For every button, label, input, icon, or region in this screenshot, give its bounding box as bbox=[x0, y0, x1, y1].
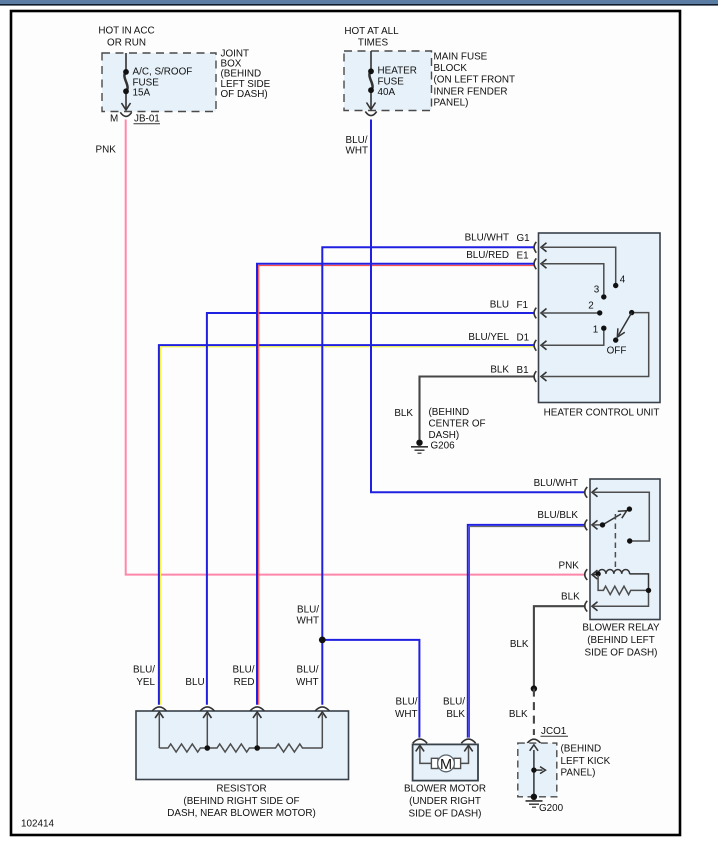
svg-text:BLU/: BLU/ bbox=[297, 665, 319, 676]
label BLOWER RELAY (BEHIND LEFT SIDE OF DASH) bbox=[582, 623, 660, 659]
relay armature pivot contact bbox=[600, 522, 605, 527]
svg-text:TIMES: TIMES bbox=[358, 37, 389, 48]
heater control unit box bbox=[539, 233, 661, 403]
svg-text:BLK: BLK bbox=[490, 364, 509, 375]
svg-text:BLOCK: BLOCK bbox=[434, 63, 468, 74]
blower relay box bbox=[590, 479, 660, 620]
svg-text:OFF: OFF bbox=[607, 346, 627, 357]
svg-text:102414: 102414 bbox=[21, 819, 54, 830]
svg-text:BLU/WHT: BLU/WHT bbox=[465, 233, 509, 244]
svg-text:PNK: PNK bbox=[558, 561, 579, 572]
svg-text:BLK: BLK bbox=[510, 639, 529, 650]
svg-text:PANEL): PANEL) bbox=[434, 98, 469, 109]
svg-text:YEL: YEL bbox=[136, 677, 155, 688]
svg-text:(BEHIND LEFT: (BEHIND LEFT bbox=[587, 635, 655, 646]
svg-text:(UNDER RIGHT: (UNDER RIGHT bbox=[409, 796, 481, 807]
label MAIN FUSE BLOCK (ON LEFT FRONT INNER FENDER PANEL) bbox=[434, 52, 516, 109]
svg-text:B1: B1 bbox=[517, 365, 530, 376]
svg-text:G1: G1 bbox=[517, 233, 531, 244]
svg-text:BLU/: BLU/ bbox=[133, 665, 155, 676]
blower switch arm with arrow bbox=[617, 313, 631, 338]
relay switch arm bbox=[603, 511, 627, 525]
svg-text:WHT: WHT bbox=[297, 616, 319, 627]
svg-text:BLU/WHT: BLU/WHT bbox=[534, 478, 578, 489]
svg-text:RED: RED bbox=[234, 677, 255, 688]
pin D1 connector bbox=[468, 332, 546, 351]
pin E1 connector bbox=[466, 250, 546, 269]
label A/C, S/ROOF FUSE 15A bbox=[133, 67, 193, 99]
svg-text:SIDE OF DASH): SIDE OF DASH) bbox=[409, 808, 482, 819]
wire PNK from JB-01 to blower relay bbox=[126, 120, 585, 575]
label (BEHIND CENTER OF DASH) bbox=[429, 407, 486, 441]
node JCO1 junction bbox=[531, 767, 536, 772]
wire BLU/WHT branch from junction to blower motor bbox=[322, 640, 419, 738]
motor internal wiring bbox=[420, 747, 469, 763]
svg-text:D1: D1 bbox=[517, 333, 530, 344]
wire BLU/BLK from blower relay to blower motor bbox=[468, 525, 585, 738]
svg-text:BLK: BLK bbox=[394, 408, 413, 419]
svg-text:HOT AT ALL: HOT AT ALL bbox=[344, 26, 399, 37]
svg-text:1: 1 bbox=[593, 325, 599, 336]
relay fixed contact upper bbox=[627, 506, 632, 511]
label RESISTOR (BEHIND RIGHT SIDE OF DASH, NEAR BLOWER MOTOR) bbox=[167, 784, 316, 820]
JCO1 box bbox=[518, 743, 557, 797]
wire labels above resistor bbox=[133, 665, 319, 689]
motor M1 symbol bbox=[431, 755, 460, 773]
wire BLU/WHT from heater fuse to blower relay bbox=[371, 120, 585, 493]
svg-text:15A: 15A bbox=[133, 88, 151, 99]
svg-text:(BEHIND: (BEHIND bbox=[429, 407, 470, 418]
switch contact OFF bbox=[613, 337, 618, 342]
svg-text:(BEHIND RIGHT SIDE OF: (BEHIND RIGHT SIDE OF bbox=[183, 796, 299, 807]
svg-text:HOT IN ACC: HOT IN ACC bbox=[98, 26, 154, 37]
svg-text:BLU/: BLU/ bbox=[396, 697, 418, 708]
svg-text:G206: G206 bbox=[431, 441, 456, 452]
svg-text:G200: G200 bbox=[539, 803, 564, 814]
svg-text:3: 3 bbox=[594, 285, 600, 296]
node resistor tap BLU/RED bbox=[254, 745, 260, 751]
svg-text:INNER FENDER: INNER FENDER bbox=[434, 86, 508, 97]
node relay coil left bbox=[595, 571, 600, 576]
fuse HEATER FUSE 40A symbol bbox=[367, 51, 376, 110]
svg-text:WHT: WHT bbox=[395, 709, 417, 720]
svg-text:A/C, S/ROOF: A/C, S/ROOF bbox=[133, 67, 193, 78]
ground G200 bbox=[526, 794, 564, 815]
svg-text:BLU: BLU bbox=[185, 677, 204, 688]
node BLK splice bbox=[531, 685, 537, 691]
fuse terminal bottom bbox=[123, 88, 129, 94]
wire BLK from blower relay to JCO1 bbox=[534, 606, 585, 688]
svg-text:BLU: BLU bbox=[490, 300, 509, 311]
connector below heater fuse bbox=[365, 112, 376, 116]
svg-text:BLU/: BLU/ bbox=[346, 135, 368, 146]
relay pin 2 connector BLU/BLK bbox=[537, 510, 597, 530]
svg-text:CENTER OF: CENTER OF bbox=[429, 418, 486, 429]
svg-text:(BEHIND: (BEHIND bbox=[561, 744, 602, 755]
node relay resistor right bbox=[646, 588, 651, 593]
label HOT IN ACC OR RUN bbox=[98, 26, 154, 49]
svg-text:BLU/RED: BLU/RED bbox=[466, 250, 509, 261]
svg-text:RESISTOR: RESISTOR bbox=[216, 784, 266, 795]
resistor pin connectors and arrows bbox=[152, 707, 329, 718]
heater fuse terminal top bbox=[368, 68, 374, 74]
svg-text:FUSE: FUSE bbox=[378, 77, 405, 88]
label (BEHIND LEFT KICK PANEL) bbox=[561, 744, 611, 779]
window top bar bbox=[0, 0, 718, 4]
relay fixed contact lower bbox=[627, 538, 632, 543]
relay pin 1 connector BLU/WHT bbox=[534, 478, 598, 498]
switch contact 2 bbox=[597, 310, 602, 315]
switch contact 4 bbox=[613, 283, 618, 288]
svg-text:WHT: WHT bbox=[346, 146, 368, 157]
wire BLU/YEL from HCU pin D1 to resistor bbox=[159, 345, 535, 705]
svg-text:BLU/: BLU/ bbox=[297, 605, 319, 616]
wire BLK dashed to JCO1 connector bbox=[533, 689, 535, 735]
switch contact 3 bbox=[601, 294, 606, 299]
svg-text:F1: F1 bbox=[517, 300, 529, 311]
relay coil bbox=[593, 570, 649, 589]
label BLOWER MOTOR (UNDER RIGHT SIDE OF DASH) bbox=[404, 784, 486, 820]
svg-text:JCO1: JCO1 bbox=[541, 726, 567, 737]
svg-text:HEATER: HEATER bbox=[378, 66, 417, 77]
svg-text:OR RUN: OR RUN bbox=[107, 38, 146, 49]
label HEATER FUSE 40A bbox=[378, 66, 417, 99]
relay pin 3 connector PNK bbox=[558, 561, 597, 581]
label BLU/WHT at junction bbox=[297, 605, 320, 627]
node junction BLU/WHT bbox=[319, 637, 326, 644]
svg-text:MAIN FUSE: MAIN FUSE bbox=[434, 52, 488, 63]
joint box JB-01 outline bbox=[102, 53, 216, 112]
svg-text:PNK: PNK bbox=[96, 145, 117, 156]
svg-text:SIDE OF DASH): SIDE OF DASH) bbox=[585, 647, 658, 658]
pin B1 connector bbox=[490, 364, 546, 382]
svg-text:BLOWER RELAY: BLOWER RELAY bbox=[582, 623, 660, 634]
ground G206 bbox=[411, 440, 455, 454]
svg-text:BLK: BLK bbox=[446, 709, 465, 720]
svg-text:DASH, NEAR BLOWER MOTOR): DASH, NEAR BLOWER MOTOR) bbox=[167, 808, 316, 819]
switch common contact bbox=[629, 310, 634, 315]
blower motor box bbox=[413, 744, 478, 780]
connector JB-01 bbox=[120, 112, 131, 116]
svg-text:E1: E1 bbox=[517, 250, 530, 261]
svg-text:BLU/: BLU/ bbox=[233, 665, 255, 676]
relay resistor bbox=[593, 575, 649, 606]
svg-text:DASH): DASH) bbox=[429, 430, 460, 441]
svg-text:JB-01: JB-01 bbox=[134, 114, 160, 125]
fuse terminal top bbox=[123, 69, 129, 75]
HCU internal wiring to switch bbox=[541, 247, 649, 376]
relay pin 4 connector BLK bbox=[561, 592, 597, 612]
wire BLK from HCU pin B1 to ground G206 bbox=[420, 377, 535, 440]
svg-text:BLK: BLK bbox=[509, 709, 528, 720]
svg-text:LEFT KICK: LEFT KICK bbox=[561, 756, 611, 767]
fuse F1 A/C S/ROOF 15A symbol bbox=[122, 53, 131, 110]
heater fuse terminal bottom bbox=[368, 87, 374, 93]
svg-text:WHT: WHT bbox=[296, 677, 318, 688]
svg-text:BLOWER MOTOR: BLOWER MOTOR bbox=[404, 784, 486, 795]
motor wire labels bbox=[395, 697, 465, 720]
pin G1 connector bbox=[465, 233, 547, 253]
svg-text:(BEHIND: (BEHIND bbox=[221, 69, 262, 80]
JCO1 internal wire bbox=[530, 745, 546, 797]
svg-text:40A: 40A bbox=[378, 87, 396, 98]
label BLU/WHT near fuse wire bbox=[346, 135, 368, 157]
svg-text:BLU/BLK: BLU/BLK bbox=[537, 510, 578, 521]
svg-text:M: M bbox=[440, 757, 452, 773]
svg-text:BLU/YEL: BLU/YEL bbox=[468, 332, 509, 343]
svg-text:2: 2 bbox=[588, 301, 594, 312]
svg-text:(ON LEFT FRONT: (ON LEFT FRONT bbox=[434, 75, 516, 86]
resistor box bbox=[136, 711, 349, 780]
label JOINT BOX (BEHIND LEFT SIDE OF DASH) bbox=[221, 49, 271, 101]
wire BLU/WHT from HCU pin G1 to junction and resistor bbox=[322, 247, 534, 705]
svg-text:BLU/: BLU/ bbox=[443, 697, 465, 708]
svg-text:PANEL): PANEL) bbox=[561, 768, 596, 779]
pin F1 connector bbox=[490, 300, 547, 319]
node resistor tap BLU bbox=[205, 745, 211, 751]
relay control dashed link bbox=[614, 514, 616, 569]
svg-text:M: M bbox=[110, 114, 118, 125]
wire BLU from HCU pin F1 to resistor bbox=[207, 313, 535, 705]
svg-text:BLK: BLK bbox=[561, 592, 580, 603]
svg-text:4: 4 bbox=[620, 275, 626, 286]
switch contact 1 bbox=[601, 326, 606, 331]
svg-text:OF DASH): OF DASH) bbox=[221, 89, 268, 100]
svg-text:HEATER CONTROL UNIT: HEATER CONTROL UNIT bbox=[544, 408, 660, 419]
label HOT AT ALL TIMES bbox=[344, 26, 399, 48]
motor pin connectors and arrows bbox=[413, 739, 476, 751]
relay internal contact wiring bbox=[593, 492, 650, 541]
wire BLU/RED from HCU pin E1 to resistor bbox=[257, 264, 535, 705]
resistor internal elements bbox=[159, 714, 322, 752]
main fuse block outline bbox=[344, 51, 432, 111]
